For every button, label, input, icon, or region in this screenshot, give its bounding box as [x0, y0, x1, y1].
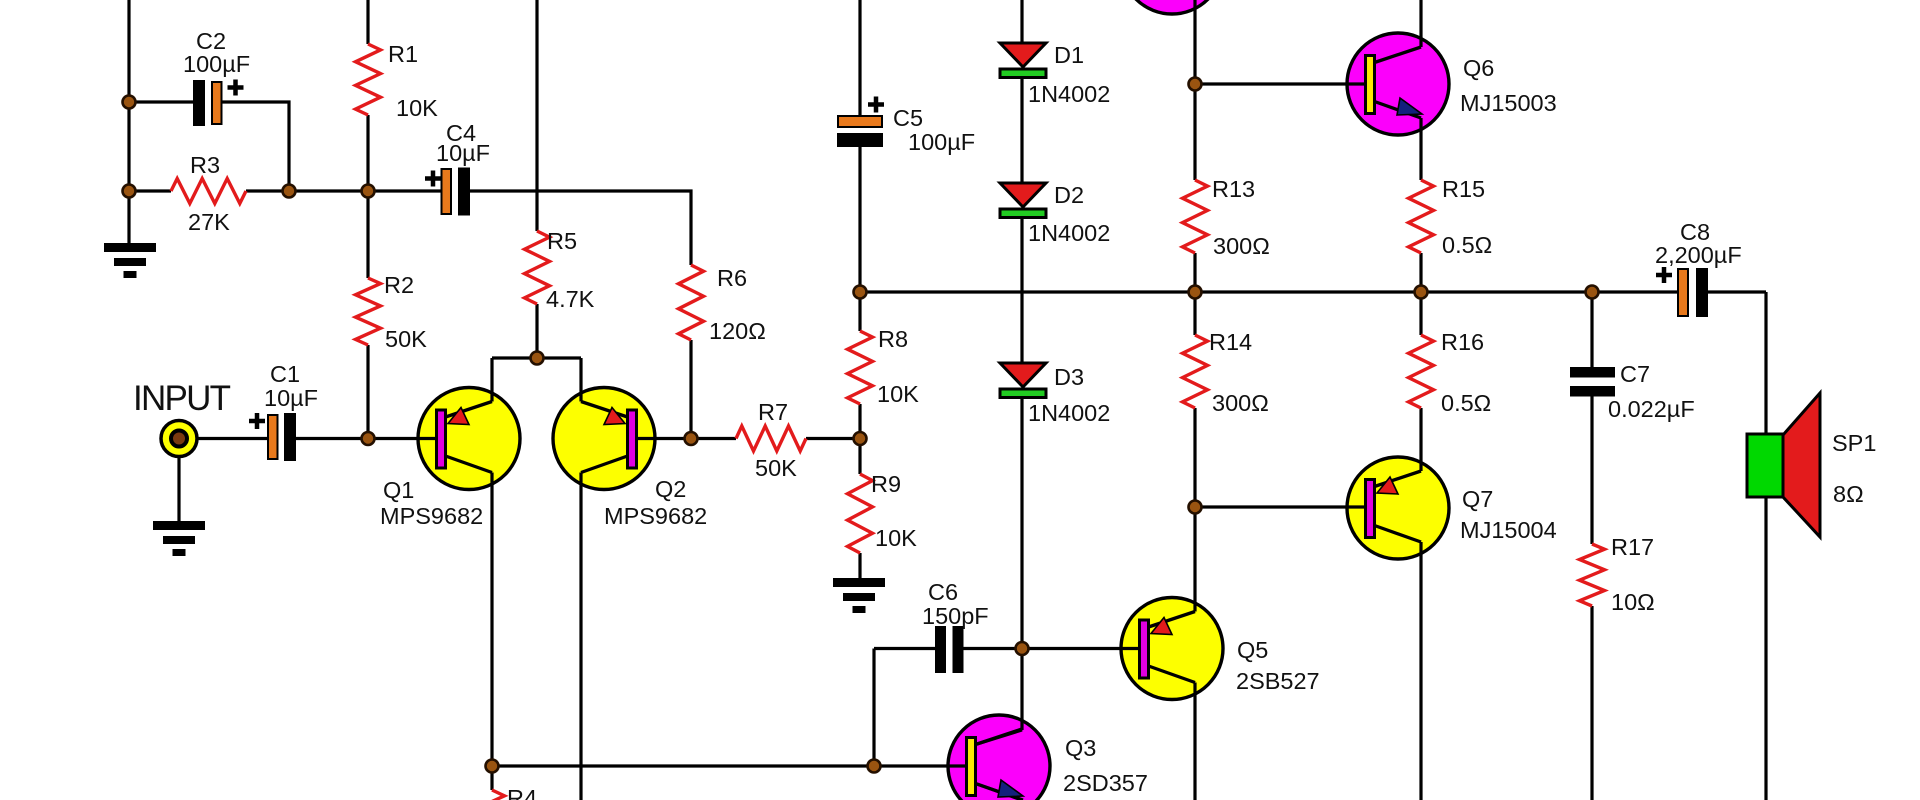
svg-text:R14: R14	[1209, 329, 1252, 355]
svg-text:1N4002: 1N4002	[1028, 220, 1110, 246]
svg-text:120Ω: 120Ω	[709, 318, 766, 344]
svg-text:INPUT: INPUT	[133, 379, 231, 418]
svg-text:0.022µF: 0.022µF	[1608, 396, 1695, 422]
svg-text:150pF: 150pF	[922, 603, 989, 629]
svg-text:0.5Ω: 0.5Ω	[1441, 390, 1491, 416]
svg-text:R6: R6	[717, 265, 747, 291]
svg-text:C1: C1	[270, 361, 300, 387]
svg-text:R7: R7	[758, 399, 788, 425]
svg-text:Q3: Q3	[1065, 735, 1096, 761]
svg-text:R15: R15	[1442, 176, 1485, 202]
svg-text:300Ω: 300Ω	[1212, 390, 1269, 416]
svg-text:2SB527: 2SB527	[1236, 668, 1320, 694]
svg-text:R2: R2	[384, 272, 414, 298]
svg-text:10µF: 10µF	[436, 140, 490, 166]
svg-text:Q2: Q2	[655, 476, 686, 502]
svg-text:Q6: Q6	[1463, 55, 1494, 81]
svg-text:300Ω: 300Ω	[1213, 233, 1270, 259]
svg-text:C6: C6	[928, 579, 958, 605]
svg-text:MJ15003: MJ15003	[1460, 90, 1557, 116]
svg-text:SP1: SP1	[1832, 430, 1876, 456]
svg-text:MJ15004: MJ15004	[1460, 517, 1557, 543]
svg-text:10K: 10K	[877, 381, 919, 407]
svg-text:1N4002: 1N4002	[1028, 81, 1110, 107]
svg-text:Q7: Q7	[1462, 486, 1493, 512]
svg-text:D3: D3	[1054, 364, 1084, 390]
svg-text:27K: 27K	[188, 209, 230, 235]
svg-text:R8: R8	[878, 326, 908, 352]
svg-text:10Ω: 10Ω	[1611, 589, 1655, 615]
svg-text:R9: R9	[871, 471, 901, 497]
svg-text:50K: 50K	[755, 455, 797, 481]
svg-text:MPS9682: MPS9682	[380, 503, 483, 529]
svg-text:R1: R1	[388, 41, 418, 67]
svg-text:C5: C5	[893, 105, 923, 131]
svg-text:10K: 10K	[396, 95, 438, 121]
svg-text:10µF: 10µF	[264, 385, 318, 411]
svg-text:D1: D1	[1054, 42, 1084, 68]
svg-text:50K: 50K	[385, 326, 427, 352]
svg-text:R16: R16	[1441, 329, 1484, 355]
svg-text:2SD357: 2SD357	[1063, 770, 1148, 796]
svg-text:MPS9682: MPS9682	[604, 503, 707, 529]
svg-text:Q1: Q1	[383, 477, 414, 503]
svg-text:10K: 10K	[875, 525, 917, 551]
svg-text:4.7K: 4.7K	[546, 286, 595, 312]
svg-text:1N4002: 1N4002	[1028, 400, 1110, 426]
svg-text:C7: C7	[1620, 361, 1650, 387]
svg-text:8Ω: 8Ω	[1833, 481, 1864, 507]
svg-text:100µF: 100µF	[183, 51, 250, 77]
svg-text:R4: R4	[507, 785, 537, 800]
svg-text:R3: R3	[190, 152, 220, 178]
svg-text:R17: R17	[1611, 534, 1654, 560]
svg-text:0.5Ω: 0.5Ω	[1442, 232, 1492, 258]
svg-text:R5: R5	[547, 228, 577, 254]
svg-text:R13: R13	[1212, 176, 1255, 202]
svg-text:2,200µF: 2,200µF	[1655, 242, 1742, 268]
svg-text:Q5: Q5	[1237, 637, 1268, 663]
svg-text:100µF: 100µF	[908, 129, 975, 155]
svg-text:D2: D2	[1054, 182, 1084, 208]
